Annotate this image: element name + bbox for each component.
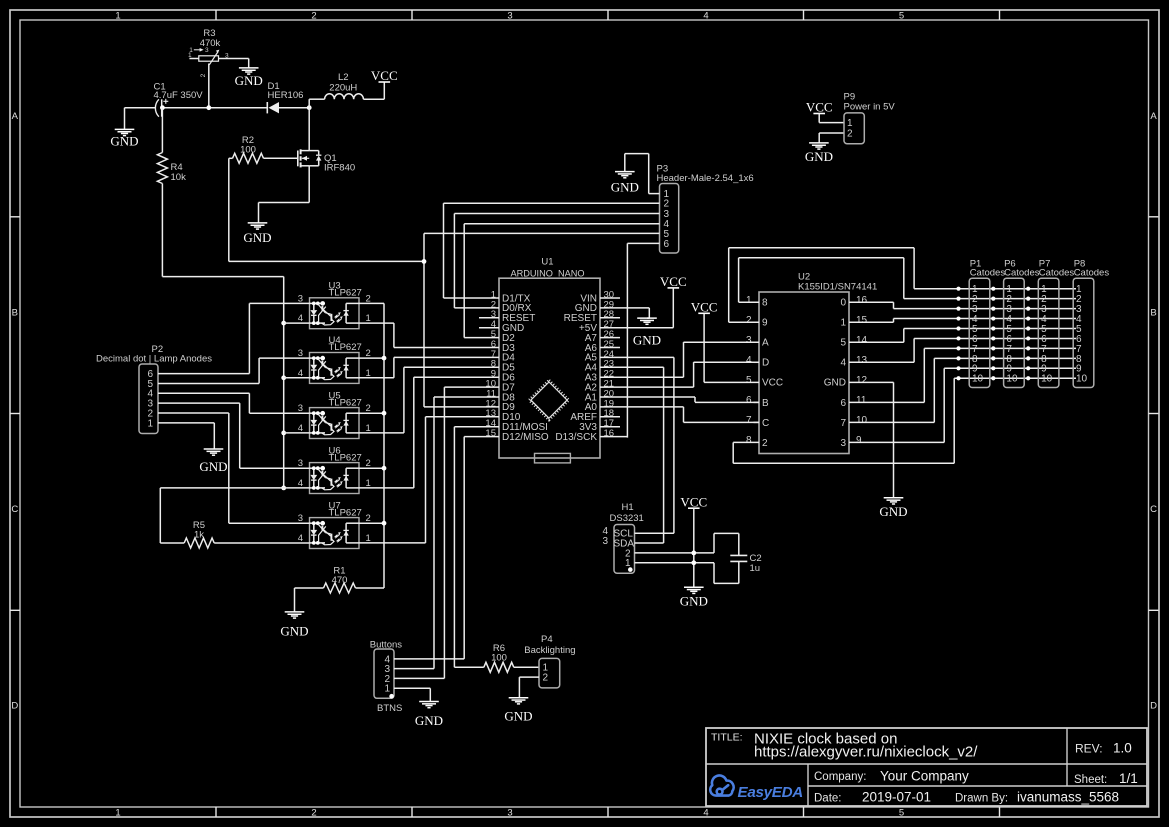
U3 output transistor — [345, 303, 347, 323]
svg-text:GND: GND — [110, 134, 138, 149]
svg-text:1: 1 — [188, 52, 192, 59]
svg-text:1: 1 — [115, 807, 120, 818]
optocoupler U6 TLP627 — [310, 463, 360, 494]
optocoupler U3 TLP627 — [310, 298, 360, 329]
inductor L2 — [325, 94, 364, 99]
svg-text:Catodes: Catodes — [970, 268, 1006, 279]
svg-text:2: 2 — [311, 807, 316, 818]
wire cathode bus rows — [284, 322, 310, 324]
connector P7 — [1038, 278, 1059, 387]
U6 photon arrows — [335, 480, 339, 482]
junction node bus U5 — [382, 411, 387, 416]
resistor R5 — [184, 538, 214, 548]
katode bus rows — [914, 288, 1076, 290]
junction node D9-R2-P3.5 — [422, 259, 427, 264]
svg-text:6: 6 — [840, 398, 846, 409]
svg-text:2: 2 — [762, 438, 768, 449]
U2 unconnected left stubs — [754, 341, 760, 343]
wire P9 pin 2 to ground — [819, 132, 844, 134]
svg-text:Drawn By:: Drawn By: — [955, 793, 1008, 805]
ground for P3 pin1 — [615, 171, 635, 173]
svg-text:2: 2 — [847, 129, 853, 140]
svg-text:3: 3 — [507, 10, 512, 21]
wire U1 A0 to U2 C — [600, 406, 684, 408]
U5 internal darlington — [318, 414, 334, 435]
wire U2 pin12 to ground — [849, 381, 894, 383]
svg-text:2: 2 — [200, 73, 207, 77]
svg-text:D: D — [762, 358, 769, 369]
resistor R1 — [324, 583, 356, 593]
svg-text:470k: 470k — [200, 38, 221, 49]
svg-text:Decimal dot | Lamp Anodes: Decimal dot | Lamp Anodes — [96, 354, 212, 365]
wire Q1 drain to L2 — [308, 99, 310, 108]
ground for BTNS — [419, 701, 439, 703]
ground for Q1 source — [248, 222, 268, 224]
capacitor C2 — [730, 554, 747, 556]
svg-text:VCC: VCC — [691, 300, 718, 315]
connector P3 — [660, 184, 679, 254]
wire P3 pin 4 to U1 D2 — [464, 223, 659, 225]
U5 internal LED — [310, 412, 326, 414]
svg-text:Catodes: Catodes — [1074, 268, 1110, 279]
wire P2 pin4 to U5 pin3 — [158, 392, 249, 394]
wire R1 left to ground — [295, 587, 324, 589]
svg-text:3: 3 — [205, 47, 209, 54]
wire BTNS pin1 to ground — [394, 687, 430, 689]
wire P2 pin3 to U6 pin3 — [158, 402, 240, 404]
svg-text:https://alexgyver.ru/nixiecloc: https://alexgyver.ru/nixieclock_v2/ — [754, 744, 978, 761]
U3 internal darlington — [318, 304, 334, 325]
wire P3 pin 5 to D9 net — [424, 232, 660, 234]
svg-text:Catodes: Catodes — [1039, 268, 1075, 279]
wire U4 pin2 to bus — [359, 357, 384, 359]
junction node HV-R3 wiper — [206, 105, 211, 110]
wire U6 pin2 to bus — [359, 467, 384, 469]
svg-text:5: 5 — [746, 375, 752, 386]
capacitor C1 — [155, 99, 159, 116]
optocoupler U7 TLP627 — [310, 518, 360, 549]
wire D1 to L2 junction — [279, 107, 309, 109]
wire U2 pin2 loop to row1 — [729, 321, 759, 323]
svg-text:VCC: VCC — [762, 378, 783, 389]
junction node HV-R4 — [160, 105, 165, 110]
svg-text:8: 8 — [762, 298, 768, 309]
resistor R4 — [157, 153, 167, 184]
wire R5 to U7 pin4 — [214, 542, 309, 544]
svg-text:ARDUINO NANO: ARDUINO NANO — [510, 268, 584, 278]
wire U1 D3 to U3 pin1 — [394, 347, 499, 349]
svg-text:DS3231: DS3231 — [610, 513, 644, 524]
svg-text:GND: GND — [805, 149, 833, 164]
svg-text:VCC: VCC — [806, 100, 833, 115]
svg-text:1/1: 1/1 — [1119, 771, 1138, 786]
U6 output transistor — [345, 468, 347, 488]
svg-text:1: 1 — [847, 118, 853, 129]
svg-text:10: 10 — [1006, 374, 1018, 385]
wire U1 D11 to R6 — [454, 426, 499, 428]
svg-text:10k: 10k — [171, 172, 187, 183]
svg-text:GND: GND — [504, 708, 532, 723]
svg-text:A: A — [1150, 111, 1157, 122]
wire U7 pin2 to bus — [359, 522, 384, 524]
connector P9 — [844, 113, 864, 144]
svg-text:14: 14 — [856, 335, 868, 346]
junction node bus U7 — [382, 521, 387, 526]
P1 pin junction dots — [956, 287, 960, 291]
svg-text:GND: GND — [680, 593, 708, 608]
svg-text:2: 2 — [311, 10, 316, 21]
wire C2 top leg — [713, 533, 715, 553]
wire U2 A — [684, 341, 760, 343]
svg-text:10: 10 — [972, 374, 984, 385]
ground for C1 — [124, 108, 126, 130]
U1 pin 17 3V3 — [600, 426, 620, 428]
wire U1 A3 to U2 A — [600, 376, 684, 378]
optocoupler U5 TLP627 — [310, 408, 360, 439]
svg-text:D: D — [11, 701, 18, 712]
U7 internal darlington — [318, 524, 334, 545]
wire R2 left to D9 net — [229, 157, 233, 159]
svg-text:VCC: VCC — [371, 68, 398, 83]
U3 internal LED — [310, 302, 326, 304]
svg-text:6: 6 — [746, 395, 752, 406]
U7 internal LED — [310, 522, 326, 524]
U6 internal darlington — [318, 469, 334, 490]
wire BTNS pin2 — [394, 677, 444, 679]
svg-text:4: 4 — [746, 355, 752, 366]
svg-text:GND: GND — [611, 179, 639, 194]
EasyEDA logo — [710, 776, 733, 796]
svg-text:B: B — [762, 398, 769, 409]
svg-text:8: 8 — [746, 435, 752, 446]
wire U1 D4 to U4 pin1 — [394, 356, 499, 358]
svg-text:A: A — [12, 111, 19, 122]
svg-text:100: 100 — [491, 653, 507, 664]
ground for U2 — [884, 497, 904, 499]
rtc H1 DS3231 — [614, 525, 635, 574]
U5 photon arrows — [335, 425, 339, 427]
U5 output transistor — [345, 413, 347, 433]
svg-text:13: 13 — [856, 355, 868, 366]
H1 pin1 marker dot — [628, 567, 633, 572]
svg-text:4: 4 — [840, 358, 846, 369]
svg-text:11: 11 — [856, 395, 867, 406]
P6 pin junction dots — [991, 287, 995, 291]
svg-text:TLP627: TLP627 — [329, 342, 362, 353]
wire U7 pin1 to D10 — [359, 542, 426, 544]
wire U2 pin13 to row6 — [849, 361, 914, 363]
power flag VCC boost — [379, 81, 391, 83]
svg-text:12: 12 — [856, 375, 868, 386]
wire H1 pin1 to GND net — [635, 562, 715, 564]
opto emitter bus vertical — [383, 303, 385, 588]
ground for R1 — [285, 611, 305, 613]
ground for R3 — [248, 59, 250, 68]
svg-text:TLP627: TLP627 — [329, 507, 362, 518]
wire U2 pin14 to row5 — [849, 341, 904, 343]
title block frame — [706, 728, 1147, 806]
ground for H1 — [684, 586, 704, 588]
wire U2 pin11 to row7 — [849, 401, 924, 403]
ic U2 K155ID1/SN74141 — [759, 292, 849, 454]
U4 internal darlington — [318, 359, 334, 380]
wire U2 pin9 to row9 — [849, 441, 944, 443]
U4 photon arrows — [335, 370, 339, 372]
svg-text:Header-Male-2.54_1x6: Header-Male-2.54_1x6 — [657, 173, 754, 184]
potentiometer R3 — [199, 56, 219, 61]
U7 output transistor — [345, 523, 347, 543]
power flag VCC U2 — [698, 312, 710, 314]
svg-text:GND: GND — [879, 504, 907, 519]
wire Q1 source to ground — [308, 166, 310, 203]
svg-text:GND: GND — [280, 624, 308, 639]
junction node bus U6 — [382, 466, 387, 471]
BTNS pin1 marker dot — [389, 694, 394, 699]
svg-text:U1: U1 — [541, 256, 553, 267]
svg-text:5: 5 — [899, 807, 904, 818]
svg-text:Backlighting: Backlighting — [524, 645, 575, 656]
svg-text:BTNS: BTNS — [377, 703, 402, 714]
svg-text:3: 3 — [507, 807, 512, 818]
wire U1 GND29 to ground — [600, 307, 649, 309]
svg-text:B: B — [12, 308, 18, 319]
wire U2 pin10 to row8 — [849, 421, 934, 423]
wire U1 D13/SCK to P3.6 — [600, 436, 627, 438]
ground for P4 — [509, 697, 529, 699]
wire U1 D1/TX — [444, 297, 500, 299]
wire L2 to VCC — [363, 98, 384, 100]
ground for P2 pin1 — [204, 448, 224, 450]
U4 output transistor — [345, 358, 347, 378]
wire U2 D — [694, 361, 759, 363]
svg-text:Company:: Company: — [814, 771, 866, 783]
wire R4 top to HV rail — [161, 108, 163, 153]
svg-text:TLP627: TLP627 — [329, 452, 362, 463]
transistor Q1 — [297, 151, 299, 167]
wire U1 A2 to U2 D — [600, 386, 694, 388]
svg-text:Power in 5V: Power in 5V — [844, 102, 896, 113]
svg-text:10: 10 — [1041, 374, 1053, 385]
power flag VCC P9 — [813, 113, 825, 115]
svg-text:D: D — [1150, 701, 1157, 712]
wire U3 pin1 to D3 — [359, 322, 394, 324]
svg-text:1: 1 — [384, 684, 390, 695]
U1 pin 18 AREF — [600, 416, 620, 418]
wire U1 D7 to buttons — [444, 386, 499, 388]
svg-text:4: 4 — [703, 10, 708, 21]
svg-text:10: 10 — [1076, 374, 1088, 385]
wire P2 pin1 to ground — [158, 422, 214, 424]
wire P2 pin6 to U3 pin3 — [158, 373, 249, 375]
svg-text:C: C — [762, 418, 769, 429]
svg-text:Date:: Date: — [814, 793, 842, 805]
wire U1 D0/RX — [454, 307, 499, 309]
svg-text:1: 1 — [840, 318, 846, 329]
svg-text:P4: P4 — [541, 634, 553, 645]
svg-text:220uH: 220uH — [329, 82, 357, 93]
wire H1 SDA — [635, 542, 664, 544]
wire U2 C — [684, 421, 760, 423]
wire U1 D8 to buttons — [434, 396, 499, 398]
svg-text:2: 2 — [746, 315, 752, 326]
svg-text:HER106: HER106 — [268, 90, 304, 101]
wire R4 bottom to opto cathode bus — [161, 184, 163, 277]
svg-text:16: 16 — [856, 295, 868, 306]
svg-text:100: 100 — [240, 145, 256, 156]
resistor R6 — [484, 662, 514, 672]
connector P8 — [1073, 278, 1094, 387]
wire U2 pin8 to row10 — [733, 441, 759, 443]
svg-text:3: 3 — [840, 438, 846, 449]
wire U6 pin4 row to R5 branch — [160, 487, 309, 489]
ground for P9 — [809, 142, 829, 144]
svg-text:REV:: REV: — [1075, 742, 1103, 756]
wire U4 pin1 to D4 — [359, 377, 394, 379]
svg-text:3: 3 — [225, 53, 229, 60]
svg-text:D13/SCK: D13/SCK — [555, 432, 597, 443]
U6 internal LED — [310, 467, 326, 469]
wire +5V to VCC — [672, 288, 674, 328]
svg-text:5: 5 — [899, 10, 904, 21]
wire U2 VCC pin5 — [704, 381, 759, 383]
svg-text:3: 3 — [746, 335, 752, 346]
mcu U1 ARDUINO NANO — [499, 278, 600, 458]
U1 pin 28 RESET — [600, 317, 620, 319]
svg-text:Sheet:: Sheet: — [1074, 774, 1107, 786]
svg-text:ivanumass_5568: ivanumass_5568 — [1017, 790, 1119, 805]
U4 internal LED — [310, 357, 326, 359]
svg-text:Catodes: Catodes — [1004, 268, 1040, 279]
wire U2 pin15 to row4 — [849, 321, 894, 323]
wire D11 to R6 — [454, 666, 483, 668]
U1 pin 3 RESET — [479, 317, 499, 319]
svg-text:9: 9 — [762, 318, 768, 329]
svg-text:K155ID1/SN74141: K155ID1/SN74141 — [798, 282, 877, 293]
connector P6 — [1004, 278, 1025, 387]
svg-text:GND: GND — [235, 73, 263, 88]
wire R2 to Q1 gate — [264, 157, 298, 159]
U1 chip die symbol — [529, 380, 569, 420]
svg-text:GND: GND — [824, 378, 846, 389]
svg-text:TLP627: TLP627 — [329, 397, 362, 408]
wire U6 pin1 to D6 — [359, 487, 414, 489]
wire H1 SCL — [635, 532, 674, 534]
wire U1 D9 — [424, 406, 499, 408]
junction node H1 pin1 — [691, 560, 696, 565]
wire VCC to P9 pin 1 — [818, 114, 820, 123]
wire C2 bottom leg — [713, 563, 715, 584]
svg-text:7: 7 — [840, 418, 846, 429]
svg-text:1: 1 — [746, 295, 752, 306]
svg-text:SDA: SDA — [614, 538, 635, 549]
wire U1 D2 — [464, 337, 499, 339]
wire R6 to P4 pin1 — [514, 666, 539, 668]
P7 pin junction dots — [1026, 287, 1030, 291]
wire BTNS pin3 — [394, 668, 434, 670]
svg-text:7: 7 — [746, 415, 752, 426]
svg-text:GND: GND — [633, 333, 661, 348]
svg-text:10: 10 — [856, 415, 868, 426]
svg-text:H1: H1 — [622, 502, 634, 513]
ground for U1 GND29 — [637, 317, 657, 319]
svg-text:VCC: VCC — [680, 494, 707, 509]
wire U1 D6 to U6 pin1 — [414, 376, 499, 378]
svg-text:GND: GND — [199, 459, 227, 474]
connector P2 — [139, 364, 158, 434]
U1 pin 25 A6 — [600, 347, 620, 349]
svg-text:9: 9 — [856, 435, 862, 446]
svg-text:1: 1 — [115, 10, 120, 21]
U1 pin 26 A7 — [600, 337, 620, 339]
connector P1 — [969, 278, 990, 387]
svg-text:C: C — [11, 504, 18, 515]
junction node bus U4 — [382, 356, 387, 361]
U1 pin 30 VIN — [600, 297, 620, 299]
svg-text:15: 15 — [856, 315, 868, 326]
wire P4 pin2 to ground — [519, 676, 539, 678]
svg-text:GND: GND — [243, 230, 271, 245]
svg-text:IRF840: IRF840 — [324, 162, 355, 173]
U3 photon arrows — [335, 316, 339, 318]
svg-text:0: 0 — [840, 298, 846, 309]
svg-text:A: A — [762, 338, 769, 349]
svg-text:4: 4 — [703, 807, 708, 818]
wire P3 pin 1 to ground — [649, 193, 660, 195]
wire U2 pin16 to row3 — [849, 301, 894, 303]
svg-text:1.0: 1.0 — [1113, 741, 1132, 756]
wire U5 pin1 to D5 — [359, 432, 404, 434]
svg-text:Your Company: Your Company — [880, 769, 969, 784]
svg-text:5: 5 — [840, 338, 846, 349]
svg-text:GND: GND — [415, 713, 443, 728]
wire U3 pin2 to emitter bus — [359, 302, 384, 304]
wire U5 pin2 to bus — [359, 412, 384, 414]
svg-text:EasyEDA: EasyEDA — [738, 784, 803, 801]
junction node HV-L2-Q1 — [307, 105, 312, 110]
wire U1 A4 to SDA — [600, 366, 664, 368]
wire P3 pin 3 to U1 D0/RX — [454, 213, 659, 215]
svg-text:1u: 1u — [750, 563, 761, 574]
svg-text:3: 3 — [602, 536, 608, 547]
cathode bus junction dots — [281, 321, 286, 326]
U7 photon arrows — [335, 535, 339, 537]
wire R1 right to bus — [356, 587, 385, 589]
svg-text:D12/MISO: D12/MISO — [502, 432, 549, 443]
svg-text:2: 2 — [543, 673, 549, 684]
wire U1 A1 to U2 B — [600, 396, 695, 398]
wire Q1 drain up — [308, 108, 310, 151]
junction node H1 pin2 — [691, 551, 696, 556]
optocoupler U4 TLP627 — [310, 353, 360, 384]
wire HV rail left — [125, 107, 156, 109]
wire VCC vertical H1 — [693, 508, 695, 587]
U1 crystal rectangle — [535, 453, 571, 463]
wire U2 pin1 loop to row2 — [739, 301, 759, 303]
wire R5 left vertical — [159, 488, 161, 543]
connector P4 — [539, 658, 560, 688]
wire U1 D10 to U7 pin1 — [426, 416, 500, 418]
resistor R2 — [233, 153, 264, 163]
wire H1 pin2 to VCC net — [635, 552, 715, 554]
wire P3 pin 2 to U1 D1/TX — [444, 202, 660, 204]
power flag VCC +5V — [668, 287, 680, 289]
power flag VCC H1 — [688, 507, 700, 509]
wire P2 pin2 to U7 pin3 — [158, 412, 229, 414]
svg-text:VCC: VCC — [660, 274, 687, 289]
diode D1 — [269, 102, 280, 113]
connector BTNS — [374, 649, 394, 698]
U1 pin 4 GND — [479, 327, 499, 329]
